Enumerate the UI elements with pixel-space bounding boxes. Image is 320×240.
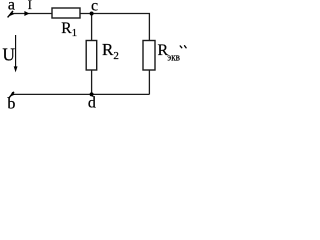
svg-text:U: U [2,45,15,65]
svg-text:a: a [8,0,15,14]
svg-text:d: d [88,95,96,109]
svg-text:b: b [7,95,15,109]
svg-text:I: I [28,0,32,12]
svg-text:c: c [91,0,98,15]
